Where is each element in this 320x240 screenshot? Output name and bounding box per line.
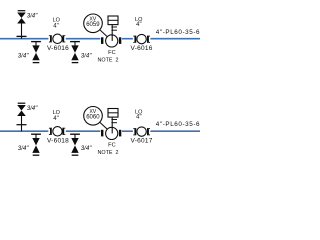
- svg-text:4"-PL60-35-6: 4"-PL60-35-6: [156, 29, 200, 36]
- vent valve 3/4" above pipe 2: [17, 103, 27, 131]
- vent valve 3/4" above pipe 1: [17, 11, 27, 39]
- svg-text:FC: FC: [108, 50, 115, 56]
- svg-text:FC: FC: [108, 143, 115, 149]
- svg-text:V-6016: V-6016: [131, 45, 153, 52]
- svg-text:4": 4": [136, 115, 141, 121]
- drain valve 3/4" below pipe 1, right: [70, 42, 80, 63]
- instrument bubble XV-6060: [84, 107, 103, 126]
- actuated shutdown valve XV-6060 body: [101, 117, 121, 139]
- instrument bubble XV-6059: [84, 14, 103, 33]
- ball valve V-6017 (pipe 2): [133, 127, 150, 136]
- instrument leader line XV-6060: [99, 122, 107, 129]
- ball valve V-6018 (pipe 2): [49, 127, 65, 136]
- ball valve V-6016 (pipe 1): [133, 34, 150, 43]
- svg-text:4": 4": [136, 22, 141, 28]
- drain valve 3/4" below pipe 2, right: [70, 134, 80, 155]
- svg-text:3/4": 3/4": [18, 52, 29, 59]
- svg-text:6060: 6060: [86, 115, 100, 121]
- svg-text:V-6018: V-6018: [47, 137, 69, 144]
- ball valve V-6016 (pipe 1): [49, 34, 65, 43]
- drain valve 3/4" below pipe 1, left: [31, 42, 41, 63]
- svg-text:NOTE 2: NOTE 2: [98, 150, 119, 156]
- pipe line 1 (4"-PL60-35): [0, 38, 200, 40]
- svg-text:V-6017: V-6017: [131, 137, 153, 144]
- svg-text:3/4": 3/4": [18, 145, 29, 152]
- svg-text:4": 4": [53, 24, 58, 30]
- actuator (XV-6060): [108, 109, 118, 123]
- svg-text:4": 4": [53, 116, 58, 122]
- svg-text:3/4": 3/4": [81, 52, 92, 59]
- pipe line 2 (4"-PL60-35): [0, 130, 200, 132]
- instrument leader line XV-6059: [99, 29, 107, 36]
- svg-text:4"-PL60-35-6: 4"-PL60-35-6: [156, 121, 200, 128]
- svg-text:3/4": 3/4": [27, 105, 38, 112]
- actuated shutdown valve XV-6059 body: [101, 25, 121, 47]
- svg-text:3/4": 3/4": [27, 13, 38, 20]
- actuator (XV-6059): [108, 16, 118, 30]
- svg-text:6059: 6059: [86, 22, 100, 28]
- svg-text:3/4": 3/4": [81, 145, 92, 152]
- svg-text:V-6016: V-6016: [47, 45, 69, 52]
- drain valve 3/4" below pipe 2, left: [31, 134, 41, 155]
- svg-text:NOTE 2: NOTE 2: [98, 58, 119, 64]
